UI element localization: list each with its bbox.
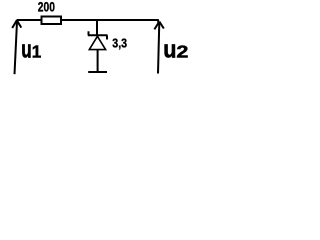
svg-text:2: 2 xyxy=(176,42,188,62)
svg-text:3,3: 3,3 xyxy=(112,35,127,50)
wire top right segment xyxy=(62,19,159,21)
voltage arrow u2 xyxy=(154,22,163,74)
resistor R1 xyxy=(42,17,62,25)
wire top left segment xyxy=(17,19,42,21)
voltage arrow u1 xyxy=(12,20,21,74)
svg-text:u: u xyxy=(21,37,31,63)
zener diode D1 xyxy=(88,20,108,72)
svg-text:1: 1 xyxy=(32,41,42,62)
wire end tick xyxy=(157,20,159,23)
svg-text:200: 200 xyxy=(38,0,55,15)
svg-text:u: u xyxy=(163,35,176,62)
zener triangle xyxy=(89,36,105,49)
